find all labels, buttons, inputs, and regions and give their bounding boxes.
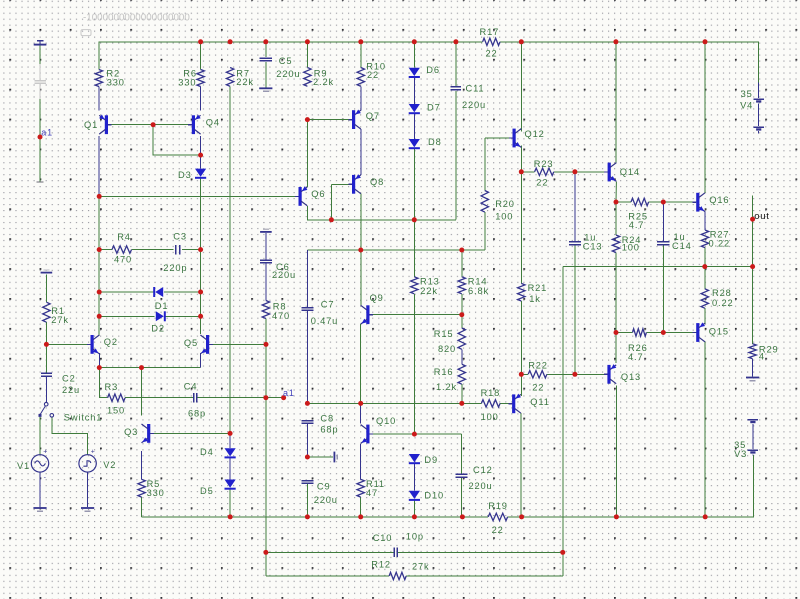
svg-text:D2: D2 xyxy=(151,323,165,333)
wire Q16 collector column xyxy=(704,42,706,193)
capacitor C2 xyxy=(41,372,52,374)
wire Q5 base to C6 column xyxy=(207,343,266,345)
resistor R2 xyxy=(95,70,102,87)
resistor R11 xyxy=(357,479,364,497)
wire Q7 base row xyxy=(307,119,352,121)
wire Q2 emitter stub xyxy=(98,353,100,368)
wire Q14 emitter to node xyxy=(615,182,617,202)
svg-text:22k: 22k xyxy=(236,77,254,87)
resistor R29 xyxy=(749,344,756,359)
svg-text:C3: C3 xyxy=(173,232,187,242)
junction dots D1 row xyxy=(97,290,102,295)
svg-text:220u: 220u xyxy=(462,100,486,110)
junction dots top rail xyxy=(198,39,203,44)
svg-text:Q3: Q3 xyxy=(124,427,138,437)
ground C5 xyxy=(259,87,272,89)
resistor R17 xyxy=(483,38,500,45)
wire D10 to rail xyxy=(413,500,415,517)
wire R14 bottom to Q9 base node xyxy=(461,294,463,315)
wire C5 lead xyxy=(265,42,267,57)
resistor R22 xyxy=(528,371,547,378)
svg-text:470: 470 xyxy=(272,311,290,321)
source V1 xyxy=(31,455,48,472)
wire Q11 base row xyxy=(307,402,461,404)
gray wire ghost xyxy=(39,64,41,80)
svg-text:D3: D3 xyxy=(178,170,192,180)
wire node to Q13 base xyxy=(575,373,608,375)
wire C5 to ground xyxy=(265,62,267,88)
wire R27 to rail node xyxy=(704,248,706,267)
capacitor C9 xyxy=(301,480,313,482)
node a1 left xyxy=(38,135,43,140)
junction dots R25 row xyxy=(614,200,619,205)
svg-text:Q1: Q1 xyxy=(84,120,98,130)
junction dot Q1 Q4 base xyxy=(151,122,156,127)
resistor R3 xyxy=(108,394,126,401)
svg-text:R22: R22 xyxy=(528,361,548,371)
resistor R14 xyxy=(458,277,465,294)
svg-text:R19: R19 xyxy=(488,501,508,511)
wire R1 top column xyxy=(45,274,47,302)
svg-text:0.22: 0.22 xyxy=(709,239,731,249)
wire D2 row xyxy=(99,315,154,317)
wire R3 to C4 xyxy=(125,397,193,399)
junction dot Q1 collector xyxy=(97,194,102,199)
capacitor C14 xyxy=(657,241,669,243)
ground R29 xyxy=(746,377,759,379)
svg-text:C11: C11 xyxy=(466,83,485,93)
svg-text:R21: R21 xyxy=(528,283,548,293)
transistor Q12 xyxy=(513,129,516,148)
svg-text:1.2k: 1.2k xyxy=(436,382,457,392)
svg-text:R20: R20 xyxy=(495,199,515,209)
wire C9 to rail xyxy=(306,484,308,517)
svg-text:Q7: Q7 xyxy=(366,111,380,121)
wire C7 to C8 node xyxy=(306,311,308,403)
svg-text:C9: C9 xyxy=(317,482,331,492)
wire D8 to node xyxy=(413,149,415,220)
svg-text:Switch1: Switch1 xyxy=(64,413,103,423)
svg-text:V3: V3 xyxy=(734,449,747,459)
wire D7 D8 link xyxy=(413,114,415,139)
transistor Q3 xyxy=(147,424,150,443)
wire C13 column top xyxy=(574,172,576,241)
wire R12 row xyxy=(266,575,389,577)
resistor R10 xyxy=(357,68,364,87)
battery V4 xyxy=(758,83,760,99)
wire C6 column xyxy=(265,233,267,259)
wire a1 row to C10 corner xyxy=(265,398,267,553)
junction dot R9 Q7 base xyxy=(305,117,310,122)
junction dots Q11 base row xyxy=(305,401,310,406)
svg-text:470: 470 xyxy=(114,254,132,264)
wire R28 to Q15 emitter xyxy=(704,308,706,324)
wire R13 bottom long column xyxy=(413,294,415,434)
wire Q2 base from R1 node xyxy=(46,343,90,345)
svg-text:220p: 220p xyxy=(163,263,187,273)
wire node to R3 corner xyxy=(99,368,107,398)
wire Q6 emitter up xyxy=(306,120,308,187)
junction dot Q10 base row xyxy=(412,432,417,437)
svg-text:C14: C14 xyxy=(672,241,692,251)
wire R7 column xyxy=(229,86,231,433)
svg-text:22: 22 xyxy=(486,48,498,58)
wire R22 to node xyxy=(547,373,575,375)
wire R26 to node xyxy=(646,332,663,334)
svg-text:220u: 220u xyxy=(276,69,300,79)
svg-text:220u: 220u xyxy=(469,481,493,491)
svg-text:R18: R18 xyxy=(481,388,501,398)
svg-text:330: 330 xyxy=(147,488,165,498)
svg-text:100: 100 xyxy=(622,243,640,253)
resistor R9 xyxy=(304,68,311,87)
wire R24 to Q13 emitter node xyxy=(615,253,617,333)
svg-text:330: 330 xyxy=(107,78,125,88)
wire R15 link xyxy=(461,315,463,328)
capacitor C11 xyxy=(451,86,461,88)
wire Q8 emitter node to Q9 collector xyxy=(360,250,362,306)
wire R23 row left xyxy=(521,171,534,173)
wire C11 lead bottom xyxy=(455,91,457,220)
wire R9 column top xyxy=(306,42,308,68)
wire node to Q13 emitter xyxy=(615,333,617,363)
svg-text:Q6: Q6 xyxy=(311,189,325,199)
svg-text:C2: C2 xyxy=(62,373,76,383)
resistor R16 xyxy=(458,364,465,384)
wire D9 D10 link xyxy=(413,464,415,490)
diode D2 xyxy=(164,311,166,321)
wire row to R18 xyxy=(462,402,482,404)
capacitor C4 xyxy=(193,393,195,403)
junction dots Q13 emitter row xyxy=(614,330,619,335)
wire V2 to ground xyxy=(87,472,89,507)
wire node to a1 row xyxy=(265,344,267,397)
wire C14 column xyxy=(662,202,664,241)
svg-text:-1000000000000000000: -1000000000000000000 xyxy=(83,12,190,23)
wire Q10 collector stub xyxy=(360,403,362,423)
wire Q6 collector down corner xyxy=(307,206,456,220)
ground R1 top xyxy=(41,272,53,274)
wire D6 D7 link xyxy=(413,78,415,104)
wire top positive rail xyxy=(99,42,482,70)
svg-text:V2: V2 xyxy=(103,460,116,470)
wire D1 row xyxy=(99,291,153,293)
wire C4 to a1 node xyxy=(197,397,283,399)
svg-text:out: out xyxy=(754,211,769,222)
transistor Q10 xyxy=(366,425,369,444)
wire C10 row xyxy=(266,551,394,553)
wire R28 column xyxy=(704,267,706,289)
capacitor C3 xyxy=(175,245,177,255)
svg-text:V1: V1 xyxy=(17,461,30,471)
diode D4 xyxy=(225,448,236,456)
resistor R12 xyxy=(389,572,406,579)
svg-text:Q15: Q15 xyxy=(709,327,729,337)
wire R6 bottom to Q4 emitter xyxy=(200,87,202,111)
svg-text:Q10: Q10 xyxy=(376,416,396,426)
wire C11 lead top xyxy=(455,42,457,86)
svg-text:R4: R4 xyxy=(117,232,131,242)
wire Q8 collector down xyxy=(360,194,362,250)
capacitor C12 xyxy=(455,473,467,475)
diode D5 xyxy=(225,480,236,488)
wire R11 to rail xyxy=(360,497,362,517)
resistor R28 xyxy=(701,289,708,308)
junction dots D2 row xyxy=(97,314,102,319)
wire V3 to rail corner xyxy=(752,455,754,517)
svg-text:Q4: Q4 xyxy=(206,118,220,128)
resistor R13 xyxy=(411,277,418,294)
resistor R1 xyxy=(43,302,50,322)
wire C6 to R8 xyxy=(265,263,267,300)
transistor Q2 xyxy=(91,335,94,354)
svg-text:22: 22 xyxy=(492,525,504,535)
junction dots emitter row xyxy=(97,365,102,370)
junction dot Q3 base xyxy=(228,431,233,436)
resistor R4 xyxy=(112,246,132,253)
wire Q9 base row xyxy=(370,314,461,316)
wire D4 D5 link xyxy=(229,458,231,480)
wire R21 to Q11 emitter xyxy=(520,301,522,396)
wire R29 to ground xyxy=(752,359,754,377)
resistor C10 xyxy=(393,548,395,558)
resistor R18 xyxy=(481,400,500,407)
wire Q1 collector down xyxy=(98,136,100,197)
svg-text:27k: 27k xyxy=(412,561,430,571)
wire R8 to Q5 base node xyxy=(265,319,267,345)
svg-text:a1: a1 xyxy=(41,128,53,138)
wire a1 stub end cap xyxy=(37,181,44,183)
wire Q14 collector column xyxy=(615,42,617,163)
svg-text:4.7: 4.7 xyxy=(628,352,643,362)
ground V2 xyxy=(81,507,94,509)
wire R7 node to D4 xyxy=(229,433,231,448)
wire switch pole2 to V2 xyxy=(52,417,88,455)
wire Q12 collector column xyxy=(520,42,522,132)
wire Q1 column down-left ladder xyxy=(98,196,100,336)
svg-text:+: + xyxy=(43,449,47,456)
wire R23 node to R21 xyxy=(520,172,522,284)
diode D9 xyxy=(409,454,420,462)
svg-text:R23: R23 xyxy=(534,159,554,169)
transistor Q5 xyxy=(206,335,209,354)
svg-text:C7: C7 xyxy=(321,299,335,309)
wire R5 to bottom rail corner xyxy=(141,497,143,517)
svg-text:D5: D5 xyxy=(200,486,214,496)
wire R4 C3 row xyxy=(99,249,112,251)
wire R23 to Q14 base xyxy=(554,171,608,173)
junction dots R22 row xyxy=(519,372,524,377)
battery V3 xyxy=(748,419,758,421)
transistor Q7 xyxy=(352,110,355,129)
wire R14 top xyxy=(461,250,463,277)
wire out column xyxy=(752,195,754,266)
junction dots row 220 xyxy=(329,217,334,222)
wire Q1 base to Q4 base xyxy=(108,124,192,126)
capacitor C7 xyxy=(301,307,313,309)
svg-text:Q11: Q11 xyxy=(530,397,549,407)
svg-text:R16: R16 xyxy=(434,367,454,377)
resistor R19 xyxy=(488,513,507,520)
resistor R23 xyxy=(535,168,554,175)
svg-text:C13: C13 xyxy=(583,241,603,251)
capacitor C13 xyxy=(569,241,581,243)
capacitor C5 xyxy=(260,57,272,59)
wire R16 to row node xyxy=(461,384,463,403)
wire a1 stub left xyxy=(39,84,41,182)
wire Q11 collector to rail xyxy=(520,413,522,517)
svg-text:Q5: Q5 xyxy=(184,338,198,348)
svg-text:4.7: 4.7 xyxy=(629,220,644,230)
svg-text:R3: R3 xyxy=(105,382,119,392)
svg-text:D1: D1 xyxy=(155,301,169,311)
wire switch pole to V1 xyxy=(39,417,41,455)
svg-text:820: 820 xyxy=(438,344,456,354)
svg-text:R28: R28 xyxy=(712,288,732,298)
resistor R26 xyxy=(633,329,647,336)
svg-text:35: 35 xyxy=(741,89,753,99)
resistor R8 xyxy=(262,301,269,319)
diode D6 xyxy=(409,68,420,76)
svg-text:4: 4 xyxy=(759,352,765,362)
diode D10 xyxy=(409,491,420,499)
junction dot C9 top xyxy=(305,455,310,460)
node a1 right xyxy=(281,395,286,400)
wire C12 column top xyxy=(460,434,462,474)
wire Q10 emitter to R11 xyxy=(360,444,362,479)
wire Q5 emitter stub xyxy=(199,353,201,368)
svg-text:100: 100 xyxy=(495,212,513,222)
svg-text:330: 330 xyxy=(178,78,196,88)
wire Q8 base stub xyxy=(331,183,352,185)
svg-text:2.2k: 2.2k xyxy=(313,77,334,87)
wire node bar to Q4 collector xyxy=(153,125,201,155)
svg-text:150: 150 xyxy=(107,405,125,415)
wire C10 corner to R12 row xyxy=(265,552,267,576)
svg-text:C5: C5 xyxy=(279,56,293,66)
wire Q3 emitter to R5 xyxy=(141,451,143,479)
ground C6 top xyxy=(260,231,272,233)
wire mid rail 266 xyxy=(563,266,753,268)
wire Q15 collector to rail xyxy=(704,341,706,517)
svg-text:D10: D10 xyxy=(424,491,444,501)
svg-text:D4: D4 xyxy=(200,447,214,457)
transistor Q15 xyxy=(696,323,699,342)
wire C2 to switch xyxy=(45,377,47,403)
wire R10 column top xyxy=(360,42,362,68)
wire Q4 collector to D3 xyxy=(200,136,202,169)
wire Q12 base stub xyxy=(485,137,513,139)
junction dot Q9 base xyxy=(459,312,464,317)
svg-text:100: 100 xyxy=(481,412,499,422)
svg-text:D8: D8 xyxy=(428,137,442,147)
wire R15 R16 link xyxy=(461,349,463,364)
gray box artifact xyxy=(81,30,91,36)
svg-text:22: 22 xyxy=(532,383,544,393)
diode D1 xyxy=(153,287,155,297)
svg-text:Q14: Q14 xyxy=(620,167,640,177)
wire Q8 base corner xyxy=(330,184,332,220)
wire C7 column xyxy=(306,250,308,307)
resistor R15 xyxy=(458,328,465,349)
wire C12 to rail xyxy=(460,478,462,517)
transistor Q9 xyxy=(366,305,369,324)
junction dots rail 266 xyxy=(702,264,707,269)
svg-text:220u: 220u xyxy=(314,495,338,505)
svg-text:Q9: Q9 xyxy=(370,293,384,303)
junction dots row 250 xyxy=(97,247,102,252)
junction dots R23 row xyxy=(519,169,524,174)
wire R20 column xyxy=(484,212,486,250)
diode D8 xyxy=(409,139,420,147)
ground V1 xyxy=(33,507,46,509)
svg-text:R15: R15 xyxy=(434,329,454,339)
resistor R20 xyxy=(481,191,488,213)
battery cell top-left xyxy=(37,40,44,42)
diode D7 xyxy=(409,104,420,112)
svg-text:+: + xyxy=(91,449,95,456)
resistor R25 xyxy=(631,198,649,205)
wire Q10 base row xyxy=(371,433,462,435)
svg-text:Q16: Q16 xyxy=(709,195,729,205)
svg-text:22u: 22u xyxy=(62,385,80,395)
wire R2 bottom to Q1 emitter xyxy=(98,87,100,111)
source V2 xyxy=(79,455,96,472)
svg-text:22: 22 xyxy=(536,178,548,188)
wire R6 column top xyxy=(200,42,202,70)
wire node to C2 xyxy=(45,344,47,373)
capacitor C6 xyxy=(260,259,272,261)
svg-text:0.22: 0.22 xyxy=(712,298,734,308)
resistor R5 xyxy=(138,479,145,497)
wire Q7 collector to Q8 emitter xyxy=(360,129,362,175)
svg-text:D6: D6 xyxy=(426,65,440,75)
svg-text:6.8k: 6.8k xyxy=(468,286,489,296)
wire C8 C9 link xyxy=(306,424,308,457)
svg-text:22: 22 xyxy=(367,70,379,80)
svg-text:V4: V4 xyxy=(740,101,753,111)
svg-text:68p: 68p xyxy=(320,424,338,434)
wire C7 row to R20 xyxy=(307,249,484,251)
junction dot D3 top xyxy=(198,153,203,158)
wire C9 ground stub xyxy=(307,456,333,458)
wire D5 to rail xyxy=(229,489,231,517)
wire node to Q15 base xyxy=(663,332,696,334)
transistor Q14 xyxy=(608,163,611,182)
wire Q1 collector to Q6 base rail xyxy=(99,195,299,197)
junction dots C10 row xyxy=(263,550,268,555)
transistor Q16 xyxy=(696,193,699,212)
wire emitters row Q2 Q5 xyxy=(99,367,200,369)
wire bottom rail right of R19 xyxy=(508,455,754,517)
capacitor C8 xyxy=(301,420,313,422)
wire V1 to ground xyxy=(39,472,41,507)
diode D3 xyxy=(195,169,206,177)
wire D3 cathode down xyxy=(200,178,202,334)
wire R24 column xyxy=(615,202,617,235)
junction dots bottom rail xyxy=(228,514,233,519)
svg-text:Q13: Q13 xyxy=(621,372,641,382)
wire Q13 collector to rail xyxy=(615,385,617,517)
svg-text:220u: 220u xyxy=(272,270,296,280)
wire R18 to Q11 base xyxy=(500,402,512,404)
wire R1 to node xyxy=(45,322,47,344)
svg-text:1k: 1k xyxy=(529,294,541,304)
wire node to R13 xyxy=(413,220,415,277)
svg-text:R12: R12 xyxy=(371,559,391,569)
svg-text:C8: C8 xyxy=(320,414,334,424)
resistor R24 xyxy=(612,235,619,253)
